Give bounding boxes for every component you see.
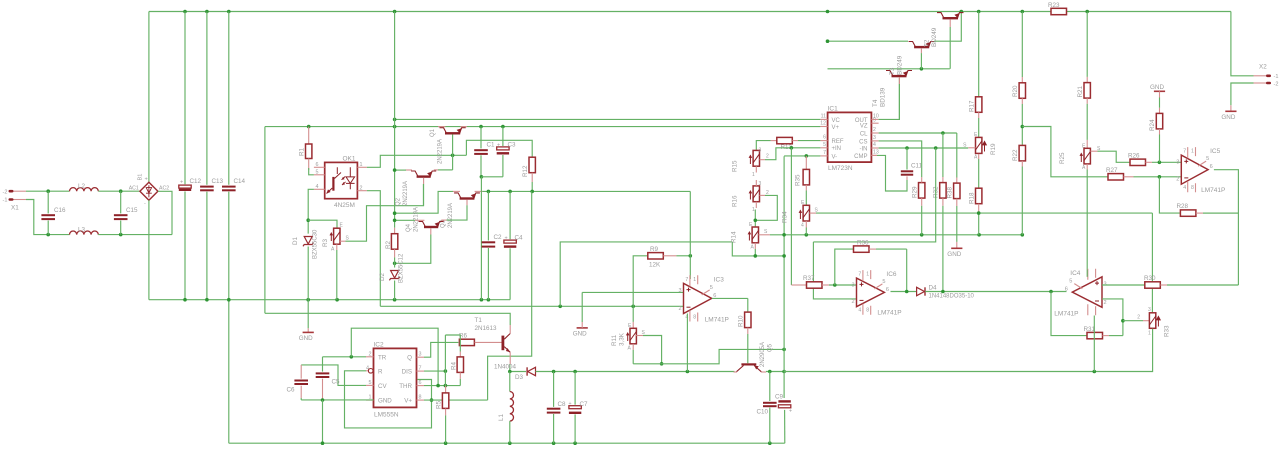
wire Q5 emitter row — [766, 371, 784, 373]
svg-text:AC1: AC1 — [129, 186, 139, 192]
svg-text:R21: R21 — [1077, 85, 1084, 97]
wire C5bot to bottom rail — [322, 400, 324, 443]
wire OK1 pin4 to gnd col — [308, 189, 314, 233]
svg-text:2N2219A: 2N2219A — [438, 139, 444, 164]
wire X1-2 to L2 — [26, 190, 70, 192]
wire Q4 base — [395, 228, 431, 263]
wire D4 to IC4 — [925, 291, 1066, 293]
svg-text:LM723N: LM723N — [828, 165, 853, 172]
svg-text:4: 4 — [1183, 185, 1186, 191]
wire OUT to T4 base — [879, 78, 900, 119]
svg-text:+: + — [180, 180, 183, 186]
resistor R9 — [648, 246, 691, 269]
svg-text:8: 8 — [866, 308, 869, 314]
wire x395 column — [394, 12, 396, 228]
wire IC3 V+ column — [689, 191, 691, 279]
svg-text:+: + — [497, 142, 500, 148]
resistor R29 — [912, 177, 925, 235]
label R15 wiper pin — [766, 154, 769, 160]
wire R38 col — [956, 133, 958, 178]
svg-text:R14: R14 — [731, 231, 738, 243]
svg-text:D4: D4 — [929, 285, 938, 292]
node junction D1 top row — [306, 218, 310, 222]
capacitor C6 — [287, 365, 309, 400]
capacitor C16 — [41, 191, 66, 234]
capacitor C4 — [504, 191, 523, 299]
svg-text:OK1: OK1 — [343, 155, 356, 162]
connector X1 label — [11, 205, 19, 212]
svg-text:LM741P: LM741P — [1201, 187, 1225, 194]
svg-text:1: 1 — [693, 277, 696, 283]
svg-text:2N2219A: 2N2219A — [414, 207, 420, 232]
node junction rail234 R29 — [920, 233, 924, 237]
svg-text:4N25M: 4N25M — [334, 202, 355, 209]
svg-text:X1: X1 — [11, 205, 19, 212]
wire R11 bottom row — [633, 349, 784, 363]
svg-text:C12: C12 — [190, 178, 202, 185]
resistor R38 — [947, 178, 961, 242]
node junction C2 bot — [487, 298, 491, 302]
wire R34 wiper row213 — [810, 208, 1153, 214]
svg-text:R20: R20 — [1012, 85, 1019, 97]
svg-text:LM741P: LM741P — [1054, 310, 1078, 317]
resistor R22 — [1012, 145, 1026, 234]
wire X2 pin1 drop — [1231, 12, 1254, 76]
transistor T3 — [889, 42, 935, 76]
transistor Q4 — [415, 220, 447, 228]
ground GND3 — [947, 242, 962, 258]
wire Q1 base — [452, 134, 454, 170]
node junction Q3coll x395 — [393, 211, 397, 215]
svg-text:Q4: Q4 — [406, 223, 412, 232]
svg-text:CS: CS — [859, 139, 867, 145]
node junction V+ 555 — [430, 398, 434, 402]
svg-text:3: 3 — [873, 135, 876, 141]
node junction T3 coll — [826, 39, 830, 43]
connector X1 pad -2 — [3, 189, 26, 195]
wire IC3 out — [712, 297, 748, 299]
node junction D3 L1 — [508, 370, 512, 374]
svg-text:GND: GND — [573, 330, 587, 337]
resistor R12 — [466, 140, 535, 191]
wire T3 base — [920, 48, 922, 69]
resistor R27 — [1106, 167, 1181, 180]
svg-text:3: 3 — [1176, 160, 1179, 166]
wire X1-1 down — [26, 200, 70, 235]
svg-text:C11: C11 — [911, 163, 923, 170]
node junction brail L1 — [508, 441, 512, 445]
op-amp IC6 — [852, 270, 902, 317]
transistor Q2 — [406, 170, 439, 178]
ic IC2 pin4 bubble — [366, 369, 373, 374]
svg-text:GND: GND — [378, 398, 392, 405]
transistor T4 — [872, 71, 912, 108]
svg-text:IC5: IC5 — [1210, 148, 1221, 155]
node junction C13 top — [205, 10, 209, 14]
node junction rail234 Vm — [782, 233, 786, 237]
svg-text:-2: -2 — [1274, 81, 1279, 87]
ic IC1 box — [828, 105, 872, 172]
potentiometer R11 — [611, 306, 646, 364]
node junction R11 wiper — [660, 362, 664, 366]
wire R36 right leg — [906, 249, 908, 291]
node junction C13 bot — [205, 298, 209, 302]
svg-text:R10: R10 — [738, 315, 745, 327]
wire V+ row — [424, 399, 488, 401]
capacitor C13 — [200, 12, 223, 300]
wire IC4 V+ from R21 — [1086, 270, 1088, 277]
svg-text:5: 5 — [710, 285, 713, 291]
node junction C1 bot — [480, 175, 484, 179]
node junction C5 bot — [321, 398, 325, 402]
resistor R17 — [969, 12, 982, 137]
svg-text:2: 2 — [360, 185, 363, 191]
node junction IC3 Vminus — [686, 370, 690, 374]
svg-text:1N4004: 1N4004 — [494, 363, 517, 370]
node junction rail234 R34 — [805, 233, 809, 237]
ic IC1 pin stubs left — [820, 119, 827, 155]
node junction R21 top — [1085, 10, 1089, 14]
svg-text:7: 7 — [1183, 149, 1186, 155]
ic IC1 pin numbers — [820, 113, 879, 155]
svg-text:1: 1 — [360, 162, 363, 168]
svg-text:R5: R5 — [436, 400, 443, 409]
svg-text:T4: T4 — [872, 99, 879, 107]
svg-text:Q1: Q1 — [430, 128, 436, 137]
svg-text:IC6: IC6 — [886, 271, 897, 278]
wire R33 wiper row — [1123, 320, 1143, 322]
svg-text:GND: GND — [299, 335, 313, 342]
svg-text:R18: R18 — [969, 192, 976, 204]
svg-text:C5: C5 — [332, 379, 341, 386]
svg-text:7: 7 — [858, 272, 861, 278]
wire Vminus row — [784, 155, 820, 157]
wire R33 top column — [1151, 213, 1153, 312]
svg-text:V-: V- — [832, 154, 838, 160]
node junction C15 top — [119, 189, 123, 193]
svg-text:4: 4 — [858, 308, 861, 314]
node junction C7 top — [573, 370, 577, 374]
node junction R20 top — [1021, 10, 1025, 14]
node junction R33 wiper — [1121, 319, 1125, 323]
node junction C11 top — [905, 146, 909, 150]
wire CV path — [301, 365, 366, 386]
node junction THR1 — [436, 384, 440, 388]
svg-text:GND: GND — [1150, 84, 1164, 91]
svg-text:LM741P: LM741P — [877, 310, 901, 317]
resistor R30 — [1144, 275, 1238, 288]
svg-text:R19: R19 — [990, 143, 997, 155]
inductor L3 — [70, 227, 99, 235]
inductor L2 — [70, 183, 99, 191]
svg-text:3: 3 — [1148, 307, 1151, 313]
svg-text:3: 3 — [759, 148, 762, 154]
node junction C16 top — [46, 189, 50, 193]
svg-text:C13: C13 — [212, 178, 224, 185]
wire IC4 +in row — [1102, 284, 1144, 286]
wire B1 minus down — [148, 200, 150, 299]
node junction row242 tap — [934, 146, 938, 150]
resistor R36 — [854, 240, 907, 253]
wire B1 plus column — [148, 12, 150, 184]
wire out row y371 — [510, 371, 526, 373]
svg-text:1: 1 — [1148, 331, 1151, 337]
svg-text:C2: C2 — [494, 234, 503, 241]
svg-text:BZX55C12: BZX55C12 — [399, 253, 405, 283]
wire TR up-over — [351, 328, 438, 385]
wire R25 wiper — [1090, 146, 1129, 162]
svg-text:C16: C16 — [54, 207, 66, 214]
capacitor C3 — [497, 127, 516, 177]
resistor R26 — [1128, 153, 1181, 166]
node junction -in r560 — [558, 305, 562, 309]
wire tap to R27 — [1022, 127, 1107, 177]
svg-text:2: 2 — [852, 299, 855, 305]
wire gnd row y400 — [301, 399, 373, 401]
svg-text:C1: C1 — [487, 142, 496, 149]
wire IC5 out — [1214, 170, 1239, 285]
resistor R37 — [791, 275, 856, 288]
svg-text:CV: CV — [378, 383, 387, 390]
svg-text:2: 2 — [766, 154, 769, 160]
svg-text:R28: R28 — [1177, 203, 1189, 210]
optocoupler OK1 inner — [327, 167, 355, 193]
svg-text:R26: R26 — [1128, 153, 1140, 160]
svg-text:2: 2 — [679, 306, 682, 312]
svg-text:VC: VC — [832, 118, 841, 124]
ground GND2 — [573, 292, 588, 337]
svg-text:Q2: Q2 — [396, 197, 402, 206]
node junction -in R9 — [631, 305, 635, 309]
op-amp IC3 — [679, 275, 729, 323]
svg-text:6: 6 — [1210, 164, 1213, 170]
wire -IN row right — [879, 147, 969, 149]
node junction GND1 tap — [306, 298, 310, 302]
svg-text:IC1: IC1 — [828, 105, 839, 112]
svg-text:R2: R2 — [385, 240, 392, 249]
svg-text:3,3K: 3,3K — [619, 332, 626, 346]
potentiometer R3 — [322, 223, 350, 300]
transistor Q5 — [734, 342, 774, 372]
optocoupler OK1 box — [325, 155, 358, 209]
svg-text:X2: X2 — [1259, 64, 1267, 71]
node junction brail R5 — [444, 441, 448, 445]
svg-text:1N4148DO35-10: 1N4148DO35-10 — [929, 294, 975, 300]
svg-text:V+: V+ — [404, 398, 412, 405]
node junction brail1 — [321, 441, 325, 445]
node junction row255 R14 — [754, 254, 758, 258]
node junction row255 Vm — [782, 254, 786, 258]
wire R4 link down — [444, 335, 446, 386]
capacitor C1 — [474, 127, 495, 177]
svg-text:B1: B1 — [138, 174, 144, 181]
wire IC3 +in row — [582, 291, 683, 293]
svg-text:T1: T1 — [475, 317, 483, 324]
svg-text:D2: D2 — [379, 272, 386, 281]
potentiometer R16 — [732, 180, 770, 213]
transistor T2 — [924, 13, 964, 47]
wire L2 to B1 AC1 — [98, 190, 140, 192]
wire R14 wiper to rail — [759, 229, 1023, 235]
wire T1 collector — [265, 313, 510, 333]
svg-text:GND: GND — [947, 251, 961, 258]
svg-text:2: 2 — [873, 127, 876, 133]
resistor R5 — [436, 386, 449, 444]
wire rail y191 — [483, 190, 691, 192]
wire out row to IC4 — [784, 371, 1094, 373]
wire x264 column — [264, 127, 266, 314]
node junction x395 rail1 — [393, 118, 397, 122]
wire R pin4 path — [345, 371, 432, 428]
svg-text:3: 3 — [679, 288, 682, 294]
svg-text:Q5: Q5 — [768, 343, 774, 352]
svg-text:R9: R9 — [650, 246, 659, 253]
resistor R23 — [1048, 2, 1067, 15]
wire Q555 out path — [424, 342, 458, 357]
svg-text:-1: -1 — [1274, 74, 1279, 80]
node junction C2 top — [487, 190, 491, 194]
wire IC3 Vminus down — [686, 314, 688, 372]
resistor R35 — [795, 156, 810, 205]
svg-text:4: 4 — [801, 223, 804, 229]
op-amp IC4 — [1054, 269, 1106, 318]
svg-text:13: 13 — [873, 149, 879, 155]
wire row255 — [732, 242, 784, 256]
connector X1 pad -1 — [3, 198, 26, 204]
wire R36 left leg — [835, 249, 853, 285]
node junction R27 R28 — [1158, 175, 1162, 179]
zener D2 — [379, 253, 405, 300]
svg-text:2N2219A: 2N2219A — [448, 203, 454, 228]
wire TR row — [323, 356, 367, 358]
svg-text:+: + — [145, 177, 148, 183]
capacitor C10 — [756, 372, 776, 444]
svg-text:L2: L2 — [78, 183, 86, 190]
potentiometer R19 — [974, 132, 997, 161]
node junction R18 row213 — [977, 211, 981, 215]
ic IC2 pin stubs — [366, 357, 424, 400]
wire VC rail y119 — [395, 118, 821, 120]
svg-text:5: 5 — [1069, 279, 1072, 285]
svg-text:DIS: DIS — [402, 369, 412, 376]
op-amp IC5 — [1176, 147, 1225, 194]
svg-text:-2: -2 — [3, 189, 8, 195]
svg-text:D1: D1 — [292, 236, 299, 245]
svg-text:R22: R22 — [1012, 149, 1019, 161]
wire Q2 collector row — [395, 169, 406, 171]
svg-text:R15: R15 — [732, 160, 739, 172]
node junction C3 top — [501, 125, 505, 129]
wire IC4 Vminus — [1093, 316, 1095, 372]
svg-text:IC3: IC3 — [714, 276, 725, 283]
resistor R32 — [933, 177, 947, 292]
potentiometer R34 — [782, 200, 810, 235]
svg-text:R4: R4 — [451, 361, 458, 370]
svg-text:R30: R30 — [1144, 275, 1156, 282]
node junction R16R14 — [754, 219, 758, 223]
node junction C1C3 bot — [480, 298, 484, 302]
node junction C8 top — [552, 370, 556, 374]
ic IC2 pin numbers — [366, 351, 422, 400]
svg-text:LM741P: LM741P — [705, 317, 729, 324]
capacitor C8 — [547, 372, 566, 444]
wire R28 right up — [1203, 212, 1238, 214]
wire R32 col — [942, 133, 944, 177]
wire IC4 -in loop — [1102, 299, 1123, 336]
svg-text:+: + — [505, 236, 508, 242]
wire IC3 -in row — [380, 305, 683, 307]
optocoupler OK1 pins — [314, 162, 367, 191]
wire CS to R29 — [879, 141, 922, 177]
svg-text:3: 3 — [419, 351, 422, 357]
resistor R10 — [738, 298, 752, 363]
svg-text:CL: CL — [860, 131, 868, 137]
svg-text:11: 11 — [821, 113, 826, 119]
node junction T3 emitter — [960, 10, 964, 14]
wire R11 wiper — [636, 336, 661, 364]
svg-text:1: 1 — [752, 207, 755, 213]
svg-text:12K: 12K — [649, 262, 661, 269]
svg-text:THR: THR — [399, 383, 412, 390]
svg-text:IC2: IC2 — [374, 341, 385, 348]
node junction Q1 base — [451, 154, 455, 158]
svg-text:R38: R38 — [947, 186, 954, 198]
svg-text:R11: R11 — [611, 334, 618, 346]
potentiometer R14 — [731, 222, 759, 251]
wire R14 bottom — [754, 243, 756, 256]
svg-text:R17: R17 — [969, 100, 976, 112]
node junction R35 top — [805, 154, 809, 158]
resistor R2 — [385, 228, 398, 268]
svg-text:2N2219A: 2N2219A — [403, 181, 409, 206]
svg-text:BZX55C30: BZX55C30 — [313, 229, 319, 259]
node junction C10 top — [768, 370, 772, 374]
svg-text:BD139: BD139 — [880, 87, 887, 107]
node junction rail234 R22col — [1021, 233, 1025, 237]
resistor R18 — [969, 188, 982, 235]
node junction brail C8 — [552, 441, 556, 445]
wire row242 link — [813, 148, 935, 242]
svg-text:5: 5 — [1206, 156, 1209, 162]
node junction brail C10 — [768, 441, 772, 445]
label Q2 — [396, 181, 410, 206]
node junction IC6out R36 — [905, 290, 909, 294]
svg-text:IC4: IC4 — [1070, 270, 1081, 277]
wire R16-R14 tie — [754, 210, 756, 227]
node junction R32 bot — [941, 290, 945, 294]
node junction IC4 Vminus — [1093, 370, 1097, 374]
bridge rectifier B1 — [129, 174, 170, 207]
wire T3 emitter up — [934, 12, 961, 42]
svg-text:R37: R37 — [803, 275, 815, 282]
wire CL row — [879, 132, 957, 134]
resistor R1 — [299, 127, 314, 175]
potentiometer R15 — [732, 148, 762, 179]
wire T4 base — [898, 77, 900, 119]
wire IC6 -in link — [813, 242, 856, 299]
node junction R3 bot — [335, 298, 339, 302]
svg-text:Q: Q — [407, 354, 412, 361]
wire Q2 emitter to Q1 base — [438, 169, 453, 171]
wire Q3 collector path — [395, 191, 453, 213]
wire -rail — [149, 299, 510, 301]
wire Q2 base — [423, 178, 425, 206]
resistor R21 — [1077, 12, 1090, 140]
resistor R24 — [1149, 98, 1163, 163]
svg-text:+: + — [569, 401, 572, 407]
node junction T2 col — [826, 10, 830, 14]
wire R3 wiper — [340, 184, 424, 241]
